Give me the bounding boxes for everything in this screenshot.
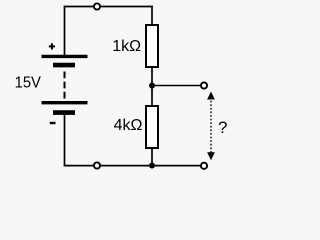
- measurement arrow head up: [207, 92, 215, 100]
- junction node bottom: [149, 163, 155, 169]
- battery V1 cell1 long plate: [42, 55, 88, 58]
- svg-text:15V: 15V: [15, 75, 42, 92]
- svg-text:4kΩ: 4kΩ: [114, 117, 143, 134]
- battery V1 - sign: [50, 122, 56, 124]
- wire middle horizontal to output: [152, 85, 201, 87]
- battery V1 + sign: [49, 43, 55, 49]
- wire R1 bottom stub: [151, 67, 153, 86]
- wire left vertical lower: [64, 114, 66, 166]
- wire top horizontal: [64, 6, 153, 8]
- junction node between R1 and R2: [149, 83, 155, 89]
- resistor R2 body: [146, 106, 158, 148]
- wire bottom horizontal: [64, 165, 201, 167]
- wire R2 bottom stub: [151, 148, 153, 166]
- terminal (open circle) bottom input: [94, 162, 100, 168]
- wire R2 top stub: [151, 86, 153, 107]
- svg-text:1kΩ: 1kΩ: [112, 38, 141, 55]
- resistor R1 body: [146, 25, 158, 67]
- battery V1 cell2 short plate: [53, 110, 75, 115]
- wire left vertical upper: [64, 6, 66, 56]
- terminal (open circle) output bottom: [201, 163, 207, 169]
- wire right vertical into R1: [151, 6, 153, 25]
- measurement arrow head down: [207, 152, 215, 160]
- battery V1 cell1 short plate: [53, 63, 75, 68]
- terminal (open circle) top input: [94, 3, 100, 9]
- measurement arrow dashed shaft: [210, 97, 212, 154]
- svg-text:?: ?: [218, 118, 227, 137]
- terminal (open circle) output top: [201, 82, 207, 88]
- battery V1 cell2 long plate: [42, 101, 88, 104]
- battery V1 inter-cell dashed link: [64, 72, 66, 99]
